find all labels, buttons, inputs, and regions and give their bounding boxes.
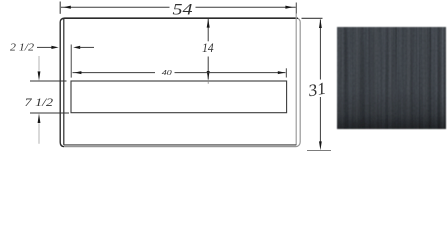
- svg-text:14: 14: [202, 40, 214, 55]
- panel outer outline: [60, 18, 300, 147]
- dimension 7 1/2 top leader: [38, 56, 40, 71]
- dimension 7 1/2 up arrow: [38, 113, 41, 123]
- dimension 40 left arrow: [74, 71, 81, 74]
- dimension 31 top extension line: [302, 17, 323, 19]
- wood material swatch: [337, 27, 446, 129]
- dimension text 54: [173, 2, 193, 19]
- dimension 54 right arrow: [285, 6, 293, 9]
- dimension 31 line: [319, 20, 321, 142]
- dimension 40 right arrow: [278, 71, 285, 74]
- dimension 7 1/2 bottom leader: [38, 123, 40, 144]
- dimension 7 1/2 top extension line: [30, 80, 67, 82]
- dimension 7 1/2 bottom extension line: [30, 112, 69, 114]
- dimension 31 bottom extension tick: [307, 149, 331, 151]
- dimension 2 1/2 extension line: [70, 45, 72, 78]
- dimension 2 1/2 text: [10, 43, 34, 54]
- dimension text 31: [306, 79, 328, 101]
- panel inner bottom edge line: [64, 144, 296, 146]
- dimension 31 up arrow: [319, 19, 322, 28]
- svg-text:40: 40: [162, 68, 172, 77]
- dimension 54 line: [61, 6, 296, 8]
- panel inner right edge line: [295, 14, 297, 146]
- dimension 14 line: [207, 19, 209, 84]
- dimension 14 down arrow: [207, 71, 210, 80]
- inner opening rectangle: [71, 81, 287, 113]
- dimension 7 1/2 down arrow: [38, 71, 41, 80]
- dimension 2 1/2 left-pointing arrow with tail: [73, 46, 94, 49]
- dimension 40 right extension line: [285, 68, 287, 77]
- dimension text 40: [162, 68, 172, 77]
- dimension 54 left extension tick: [59, 2, 61, 14]
- dimension 54 left arrow: [63, 6, 71, 9]
- dimension 14 up arrow: [207, 19, 210, 28]
- dimension text 7 1/2: [25, 97, 54, 109]
- svg-text:2 1/2: 2 1/2: [10, 43, 34, 54]
- svg-text:7 1/2: 7 1/2: [25, 97, 54, 109]
- dimension 40 line: [73, 72, 286, 74]
- dimension 2 1/2 right-pointing arrow: [51, 46, 58, 49]
- svg-text:31: 31: [306, 79, 328, 101]
- panel inner left edge line: [63, 19, 65, 145]
- dimension 2 1/2 leader: [37, 46, 52, 48]
- dimension 31 down arrow: [319, 141, 322, 150]
- svg-text:54: 54: [173, 2, 193, 19]
- dimension 54 right extension tick: [295, 3, 297, 14]
- dimension text 14: [202, 40, 214, 55]
